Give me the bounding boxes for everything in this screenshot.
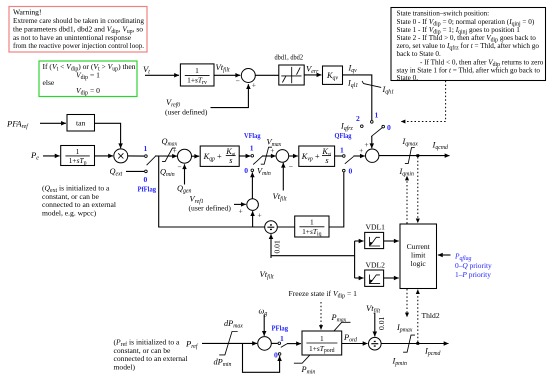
svg-text:+: + xyxy=(364,140,368,149)
svg-text:else: else xyxy=(43,78,55,87)
svg-text:back to State 0.: back to State 0. xyxy=(397,50,442,58)
limiter tick Iqmax/Iqmin xyxy=(405,148,415,164)
wire Pref to multiplier M2 xyxy=(202,342,257,344)
svg-text:1: 1 xyxy=(280,334,284,343)
svg-text:1: 1 xyxy=(195,66,199,75)
wire into VDL1 xyxy=(355,240,364,242)
svg-text:1–P priority: 1–P priority xyxy=(455,270,491,279)
svg-text:logic: logic xyxy=(411,259,427,268)
junction square on Iqcmd wire xyxy=(416,154,419,157)
svg-text:s: s xyxy=(229,156,232,165)
summing junction S3 xyxy=(178,149,192,163)
svg-text:PFlag: PFlag xyxy=(272,324,289,333)
wire PFlag to Tpord block xyxy=(287,343,301,345)
switch QFlag contact 1 xyxy=(343,155,346,158)
limit notch Pmax xyxy=(334,322,350,330)
wire omega_g to M2 xyxy=(263,315,265,336)
wire Pqflag into current limit logic xyxy=(438,254,451,256)
svg-text:s: s xyxy=(325,156,328,165)
wire S3 to Kqp block xyxy=(192,155,200,157)
summing junction S4 xyxy=(276,150,289,163)
wire Vt to Trv block xyxy=(145,74,179,76)
svg-text:−: − xyxy=(177,163,181,172)
svg-text:+: + xyxy=(359,146,363,155)
switch PfFlag contact 0 xyxy=(145,170,148,173)
summing junction S1 xyxy=(236,69,257,90)
block VDL2 xyxy=(365,270,384,286)
block 1/(1+sTp) xyxy=(61,146,95,167)
wire deadband to Kqv xyxy=(304,74,321,76)
limit notch Pmin xyxy=(294,355,310,363)
svg-text:0: 0 xyxy=(274,350,278,359)
node Vref1 xyxy=(189,195,232,213)
Pref initialization note xyxy=(114,338,188,372)
svg-text:1: 1 xyxy=(375,111,379,120)
block current limit logic xyxy=(400,224,437,289)
wire S2 to Iqcmd xyxy=(379,155,450,157)
wire Vref1 to summer S5 xyxy=(234,203,246,205)
svg-text:State 0.: State 0. xyxy=(397,74,419,82)
switch PfFlag contact 1 xyxy=(145,155,148,158)
svg-text:PfFlag: PfFlag xyxy=(138,185,157,194)
svg-text:model, e.g. wpcc): model, e.g. wpcc) xyxy=(42,208,97,217)
block tan xyxy=(67,115,95,132)
limiter tick Ipmax/Ipmin xyxy=(403,335,415,352)
wire Trv to summer S1 xyxy=(214,74,240,76)
wire VDL2 to current limit logic xyxy=(384,277,399,279)
svg-text:+: + xyxy=(270,146,274,155)
multiplier M2 xyxy=(258,337,272,351)
wire Vt_filt into D2 xyxy=(374,313,376,336)
svg-text:0: 0 xyxy=(349,167,353,176)
wire D1 to Tiq block xyxy=(277,226,294,228)
wire Tp to M1 xyxy=(95,155,114,157)
switch Iqinj contact 2 xyxy=(361,125,364,128)
voltage-dip condition note box xyxy=(39,61,137,97)
svg-text:stay in State 1 for t = Thld,: stay in State 1 for t = Thld, after whic… xyxy=(397,66,541,74)
svg-text:VDL2: VDL2 xyxy=(366,260,386,269)
deadband block xyxy=(279,65,304,85)
wire PfFlag to summer S3 xyxy=(155,155,177,157)
block 1/(1+sTiq) xyxy=(295,216,329,238)
switch QFlag blade xyxy=(345,157,354,164)
switch QFlag contact 0 xyxy=(343,169,346,172)
switch VFlag contact 0 xyxy=(251,169,254,172)
wire Tpord to divider D2 xyxy=(342,343,368,345)
multiplier M1 xyxy=(114,149,128,163)
svg-text:−: − xyxy=(289,162,293,171)
wire Tiq to QFlag contact 0 xyxy=(329,172,344,227)
wire VDL branch xyxy=(271,255,355,257)
svg-text:1: 1 xyxy=(76,147,80,156)
rate limiter tick dPmax/dPmin xyxy=(219,332,238,355)
wire Qext to contact 0 xyxy=(126,170,144,172)
wire tan to multiplier M1 xyxy=(95,123,121,148)
wire Q branch down xyxy=(159,156,265,227)
svg-text:Thld2: Thld2 xyxy=(422,311,440,320)
switch VFlag contact 1 xyxy=(251,155,254,158)
wire S1 to deadband xyxy=(255,74,278,76)
wire Kqv to switch (with corner) xyxy=(343,75,372,120)
svg-text:+: + xyxy=(258,211,262,220)
block VDL1 xyxy=(365,232,384,248)
wire Iqinj switch to summer S2 xyxy=(371,136,373,148)
block 1/(1+sTrv) xyxy=(180,64,214,86)
wire D2 to Ipcmd xyxy=(381,343,448,345)
block Kqv xyxy=(323,66,343,84)
svg-text:0: 0 xyxy=(387,123,391,132)
wire VDL riser xyxy=(354,241,356,278)
svg-text:−: − xyxy=(236,77,240,86)
divider D2 xyxy=(369,337,382,350)
wire VDL1 to current limit logic xyxy=(384,240,399,242)
wire S4 to Kvp block xyxy=(289,155,298,157)
wire M1 to PfFlag contact 1 xyxy=(127,155,144,157)
limiter tick Qmax/Qmin xyxy=(162,148,176,162)
block Kvp + Kvi/s xyxy=(299,146,335,166)
wire S5 up to VFlag contact 0 xyxy=(251,172,253,198)
node Vref0 xyxy=(165,98,208,117)
warning note box xyxy=(9,7,147,53)
dashed wire state box to Iqinj switch xyxy=(401,81,446,122)
svg-text:0–Q priority: 0–Q priority xyxy=(455,261,492,270)
block 1/(1+sTpord) xyxy=(302,331,342,355)
dashed wire Ipcmd into current limit xyxy=(417,290,419,342)
wire into VDL2 xyxy=(355,277,364,279)
svg-text:1: 1 xyxy=(340,146,344,155)
wire Kqp to VFlag contact 1 xyxy=(239,155,250,157)
switch PFlag blade xyxy=(281,344,287,348)
svg-text:0: 0 xyxy=(244,166,248,175)
svg-text:tan: tan xyxy=(76,119,85,128)
block Kqp + Kqi/s xyxy=(200,146,239,166)
dashed wire current limit to Iq limiter xyxy=(406,176,408,224)
svg-text:1: 1 xyxy=(320,334,324,343)
limit tick Iql1/Iqh1 xyxy=(362,81,381,87)
svg-text:+: + xyxy=(252,81,256,90)
svg-text:+: + xyxy=(173,146,177,155)
summing junction S5 xyxy=(247,199,259,211)
svg-text:0.01: 0.01 xyxy=(377,317,386,330)
wire Kvp to QFlag contact 1 xyxy=(335,155,343,157)
svg-text:State transition–switch positi: State transition–switch position: xyxy=(397,10,490,18)
state transition note box xyxy=(391,8,546,83)
divider D1 xyxy=(265,221,278,234)
switch VFlag blade xyxy=(253,156,262,164)
svg-text:QFlag: QFlag xyxy=(335,131,352,140)
wire Vt_filt into D1 xyxy=(270,234,272,258)
junction square on Ipcmd wire xyxy=(416,342,419,345)
svg-text:0.01: 0.01 xyxy=(272,240,281,253)
limiter tick Vmax/Vmin xyxy=(261,147,272,164)
switch Iqinj contact 0 xyxy=(382,125,385,128)
svg-text:VDL1: VDL1 xyxy=(366,223,386,232)
wire QFlag to summer S2 xyxy=(353,155,364,157)
switch PfFlag blade xyxy=(147,156,156,165)
svg-text:+: + xyxy=(239,207,243,216)
wire Vref0 to S1 xyxy=(211,84,249,107)
wire VFlag to summer S4 xyxy=(262,155,276,157)
svg-text:VFlag: VFlag xyxy=(244,131,261,140)
svg-text:model): model) xyxy=(114,362,136,371)
svg-text:from the reactive power inject: from the reactive power injection contro… xyxy=(13,41,144,50)
svg-text:(user defined): (user defined) xyxy=(189,203,232,212)
wire M2 to PFlag contact 1 xyxy=(271,342,277,344)
wire Q line up into S5 xyxy=(252,211,254,227)
wire PFA_ref to tan xyxy=(40,122,66,124)
svg-text:1: 1 xyxy=(144,144,148,153)
wire Vt_filt to S4 xyxy=(282,163,284,191)
dashed wire freeze to Tpord xyxy=(320,302,322,330)
Qext initialization note xyxy=(42,184,116,218)
dashed wire current limit to Ip limiter xyxy=(406,289,408,317)
svg-text:1: 1 xyxy=(250,144,254,153)
svg-text:2: 2 xyxy=(356,114,360,123)
wire Pe to Tp block xyxy=(43,155,60,157)
switch Iqinj blade xyxy=(371,128,382,137)
switch Iqinj contact 1 xyxy=(371,121,374,124)
wire Qgen to S3 xyxy=(184,164,186,184)
dashed wire Iqcmd into current limit xyxy=(417,157,419,223)
svg-text:1: 1 xyxy=(310,218,314,227)
svg-text:dbd1, dbd2: dbd1, dbd2 xyxy=(275,53,304,62)
switch PFlag contact 0 xyxy=(278,353,281,356)
summing junction S2 xyxy=(366,149,379,162)
switch PFlag contact 1 xyxy=(278,342,281,345)
wire PFlag bypass loop xyxy=(243,343,280,372)
svg-text:(user defined): (user defined) xyxy=(165,108,208,117)
svg-text:0: 0 xyxy=(144,175,148,184)
